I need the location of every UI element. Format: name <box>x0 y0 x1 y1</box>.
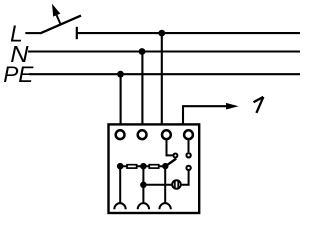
glow lamp E1 <box>172 180 181 189</box>
wire internal bus <box>120 165 165 167</box>
switch S1 fixed contact tick <box>76 27 78 39</box>
socket contact fork 2 <box>138 203 149 209</box>
internal switch contact circle <box>173 154 177 158</box>
terminal circle 2 <box>138 130 147 139</box>
switch S1 actuation arrow shaft <box>57 15 61 25</box>
output arrow head <box>226 103 239 110</box>
node 1 label <box>254 97 264 113</box>
wire PE drop to box <box>120 74 122 124</box>
device box outline <box>109 124 200 213</box>
wire lamp branch <box>143 171 188 185</box>
junction dot on N <box>139 48 146 55</box>
wire bus to contact 1 <box>119 166 121 202</box>
socket contact fork 1 <box>114 203 125 209</box>
switch S1 blade <box>40 16 81 34</box>
internal switch blade <box>165 159 176 167</box>
wire bus to contact 2 <box>142 166 144 202</box>
fuse F1 <box>127 165 137 168</box>
wire N line <box>28 50 300 52</box>
junction dot bus 3 <box>162 163 168 169</box>
terminal circle 3 <box>162 130 171 139</box>
fuse F2 <box>149 165 159 168</box>
junction dot lamp branch <box>140 182 147 189</box>
wire bus to contact 3 <box>164 166 166 202</box>
junction dot on L <box>158 30 165 37</box>
contact circle A <box>186 153 190 157</box>
junction dot on PE <box>117 71 124 78</box>
wire L drop to box <box>161 33 163 124</box>
glow lamp electrodes <box>175 181 178 188</box>
wire N drop to box <box>141 52 143 125</box>
wire terminal4 to contact A <box>188 139 190 153</box>
wire output arrow elbow <box>183 106 227 124</box>
wire terminal3 to switch contact <box>167 139 174 156</box>
socket contact fork 3 <box>159 203 170 209</box>
wire L line <box>77 32 300 34</box>
switch S1 actuation arrow head <box>52 4 60 17</box>
contact circle B <box>186 166 190 170</box>
terminal circle 1 <box>116 130 125 139</box>
junction dot bus 1 <box>117 163 124 170</box>
junction dot bus 2 <box>140 163 147 170</box>
wire PE line <box>29 73 300 75</box>
wire L stub <box>25 32 40 34</box>
terminal circle 4 <box>184 130 193 139</box>
